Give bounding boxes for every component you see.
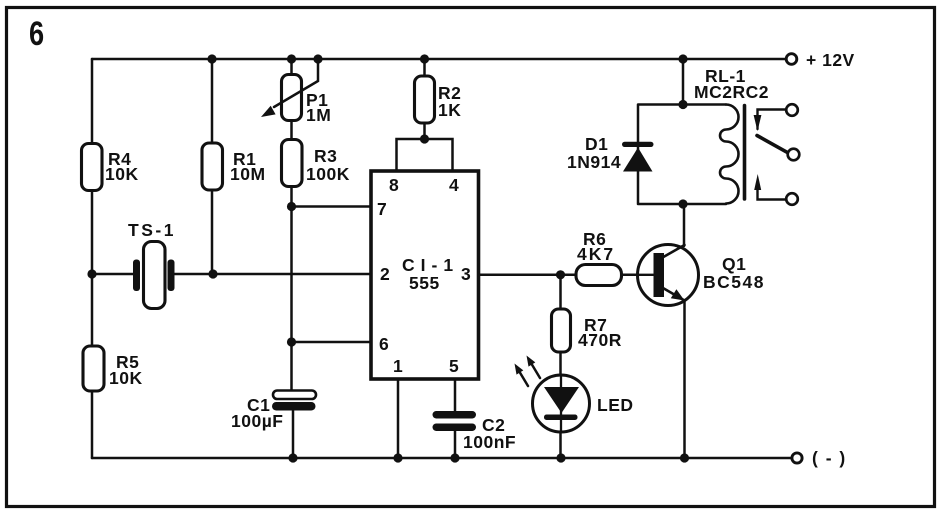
svg-text:LED: LED bbox=[597, 395, 634, 415]
svg-text:+ 12V: + 12V bbox=[806, 50, 855, 70]
svg-text:100K: 100K bbox=[306, 164, 350, 184]
svg-text:1: 1 bbox=[393, 356, 403, 376]
svg-text:2: 2 bbox=[380, 264, 390, 284]
svg-text:( - ): ( - ) bbox=[812, 448, 847, 468]
svg-text:CI-1: CI-1 bbox=[402, 255, 459, 275]
svg-text:8: 8 bbox=[389, 175, 399, 195]
svg-text:BC548: BC548 bbox=[703, 272, 765, 292]
svg-text:10M: 10M bbox=[230, 164, 266, 184]
svg-text:3: 3 bbox=[461, 264, 471, 284]
svg-text:MC2RC2: MC2RC2 bbox=[694, 82, 769, 102]
svg-text:4K7: 4K7 bbox=[577, 244, 615, 264]
svg-text:1K: 1K bbox=[438, 100, 461, 120]
svg-text:R3: R3 bbox=[314, 146, 337, 166]
svg-text:TS-1: TS-1 bbox=[128, 220, 176, 240]
svg-text:6: 6 bbox=[29, 14, 44, 53]
svg-text:Q1: Q1 bbox=[722, 254, 746, 274]
svg-text:100nF: 100nF bbox=[463, 432, 516, 452]
svg-text:5: 5 bbox=[449, 356, 459, 376]
svg-text:555: 555 bbox=[409, 273, 440, 293]
svg-text:10K: 10K bbox=[109, 368, 143, 388]
svg-text:1M: 1M bbox=[306, 105, 331, 125]
svg-text:100µF: 100µF bbox=[231, 411, 283, 431]
svg-text:7: 7 bbox=[377, 199, 387, 219]
svg-text:6: 6 bbox=[379, 334, 389, 354]
svg-text:D1: D1 bbox=[585, 134, 608, 154]
svg-text:1N914: 1N914 bbox=[567, 152, 621, 172]
svg-text:470R: 470R bbox=[578, 330, 622, 350]
svg-text:10K: 10K bbox=[105, 164, 139, 184]
svg-text:4: 4 bbox=[449, 175, 459, 195]
